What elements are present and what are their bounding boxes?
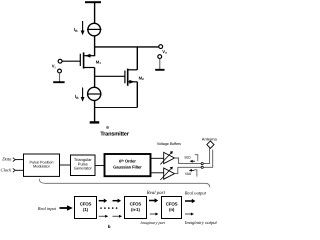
arrow: real input into CFOS 1 bbox=[60, 205, 73, 210]
divider brace between subfigures bbox=[40, 179, 210, 188]
wire: filter imag out to buffer 2 bbox=[151, 172, 164, 174]
svg-text:b: b bbox=[108, 224, 111, 229]
transistor M2 (NMOS source follower) bbox=[125, 69, 137, 86]
load arrow (bottom 50 ohm) bbox=[191, 169, 194, 171]
wire: buffer 1 output to node A bbox=[175, 158, 202, 164]
svg-text:50Ω: 50Ω bbox=[184, 156, 191, 160]
input port lower terminal bbox=[58, 69, 62, 73]
antenna ANT1 bbox=[207, 141, 214, 148]
wire: M2 source down bbox=[136, 82, 138, 108]
arrow: real output (thick) bbox=[185, 199, 195, 203]
svg-text:CFOS: CFOS bbox=[130, 202, 142, 207]
arrow: imaginary part to CFOS n (thin) bbox=[150, 213, 159, 216]
svg-text:Real input: Real input bbox=[37, 206, 57, 211]
svg-text:Real output: Real output bbox=[184, 190, 207, 195]
arrow IB2 direction (down) bbox=[81, 88, 85, 102]
svg-text:CFOS: CFOS bbox=[166, 202, 178, 207]
svg-text:M1: M1 bbox=[96, 59, 102, 65]
wire: Clock to PPM bbox=[15, 169, 23, 171]
arrow: chain imag in (thin) bbox=[113, 215, 123, 218]
ground (input port) bbox=[53, 81, 64, 83]
terminal V_o bbox=[159, 45, 163, 49]
wire: filter real out to buffer 1 bbox=[151, 157, 164, 159]
svg-text:Vi: Vi bbox=[52, 64, 56, 70]
ground (tail current source) bbox=[90, 121, 100, 123]
svg-text:Generator: Generator bbox=[74, 166, 93, 171]
wire: V_i to M1 gate bbox=[62, 60, 80, 62]
terminal V_i bbox=[58, 59, 62, 63]
dots (cascade ellipsis) bbox=[100, 207, 117, 209]
wire: Data to PPM bbox=[15, 159, 23, 161]
wire: output rail to V_o terminal bbox=[94, 46, 159, 48]
arrow IB1 direction (down) bbox=[81, 21, 85, 35]
node Data input bbox=[1, 157, 15, 162]
svg-text:Voltage Buffers: Voltage Buffers bbox=[157, 142, 181, 146]
wire: lower input terminal to ground bbox=[59, 73, 61, 82]
svg-text:Imaginary output: Imaginary output bbox=[184, 220, 218, 225]
buffer U2 (voltage buffer, bottom) bbox=[160, 167, 174, 180]
svg-text:50Ω: 50Ω bbox=[185, 172, 192, 176]
wire: node B to antenna feed bbox=[203, 150, 212, 168]
block CFOS (n-1) bbox=[125, 197, 147, 219]
svg-text:M2: M2 bbox=[139, 75, 145, 81]
block Pulse Position Modulator bbox=[24, 154, 60, 176]
svg-text:Real part: Real part bbox=[146, 190, 166, 196]
svg-text:Antenna: Antenna bbox=[202, 136, 218, 141]
load arrow (top 50 ohm) bbox=[192, 160, 195, 162]
svg-text:(1): (1) bbox=[83, 207, 89, 212]
wire: IB2 to ground bbox=[94, 101, 96, 122]
svg-text:Modulator: Modulator bbox=[33, 165, 51, 169]
arrow: chain real in (thick) bbox=[113, 199, 122, 203]
ground (output port) bbox=[155, 69, 164, 71]
wire: M2 drain to output rail bbox=[136, 47, 138, 70]
wire: lower output terminal to ground bbox=[159, 59, 161, 70]
arrow: CFOS1 imag out (thin) bbox=[99, 215, 109, 218]
block Triangular Pulse Generator bbox=[71, 155, 96, 176]
current source IB1 (top) bbox=[87, 23, 102, 36]
wire: M1 drain down to IB2 node bbox=[94, 68, 96, 88]
arrow: real part to CFOS n (thick) bbox=[149, 198, 158, 202]
svg-text:Imaginary part: Imaginary part bbox=[139, 220, 166, 225]
svg-text:Gaussian Filter: Gaussian Filter bbox=[113, 164, 142, 169]
wire: node A to antenna feed bbox=[203, 148, 209, 164]
current source IB2 (bottom) bbox=[87, 87, 102, 100]
buffer U1 (voltage buffer, top) bbox=[160, 151, 174, 164]
svg-text:(n): (n) bbox=[169, 207, 175, 212]
node A (junction) bbox=[201, 163, 203, 165]
supply VDD T-bar bbox=[85, 2, 101, 23]
block CFOS (1) bbox=[75, 197, 97, 219]
output port lower terminal bbox=[158, 55, 162, 59]
transistor M1 (PMOS source follower) bbox=[80, 52, 94, 68]
svg-text:Data: Data bbox=[1, 157, 12, 162]
arrow: CFOS1 real out (thick) bbox=[99, 199, 108, 203]
svg-text:Clock: Clock bbox=[1, 168, 13, 173]
block CFOS (n) bbox=[162, 197, 182, 219]
svg-text:CFOS: CFOS bbox=[80, 202, 92, 207]
svg-text:Transmitter: Transmitter bbox=[100, 130, 130, 137]
wire: TPG to filter bbox=[95, 165, 104, 167]
wire: node to M2 gate bbox=[95, 75, 125, 77]
svg-text:Vo: Vo bbox=[162, 49, 167, 55]
node Clock input bbox=[1, 168, 16, 173]
wire: IB2 node to M2 source bbox=[95, 107, 138, 109]
wire: PPM to TPG bbox=[60, 164, 71, 166]
svg-text:(n-1): (n-1) bbox=[131, 207, 140, 212]
block 6th Order Gaussian Filter bbox=[105, 154, 151, 176]
wire: buffer 2 output to node B bbox=[175, 167, 202, 173]
node B (junction) bbox=[201, 166, 203, 168]
arrow: imaginary output (thin) bbox=[185, 213, 194, 216]
wire: IB1 to node V_o rail bbox=[94, 36, 96, 56]
